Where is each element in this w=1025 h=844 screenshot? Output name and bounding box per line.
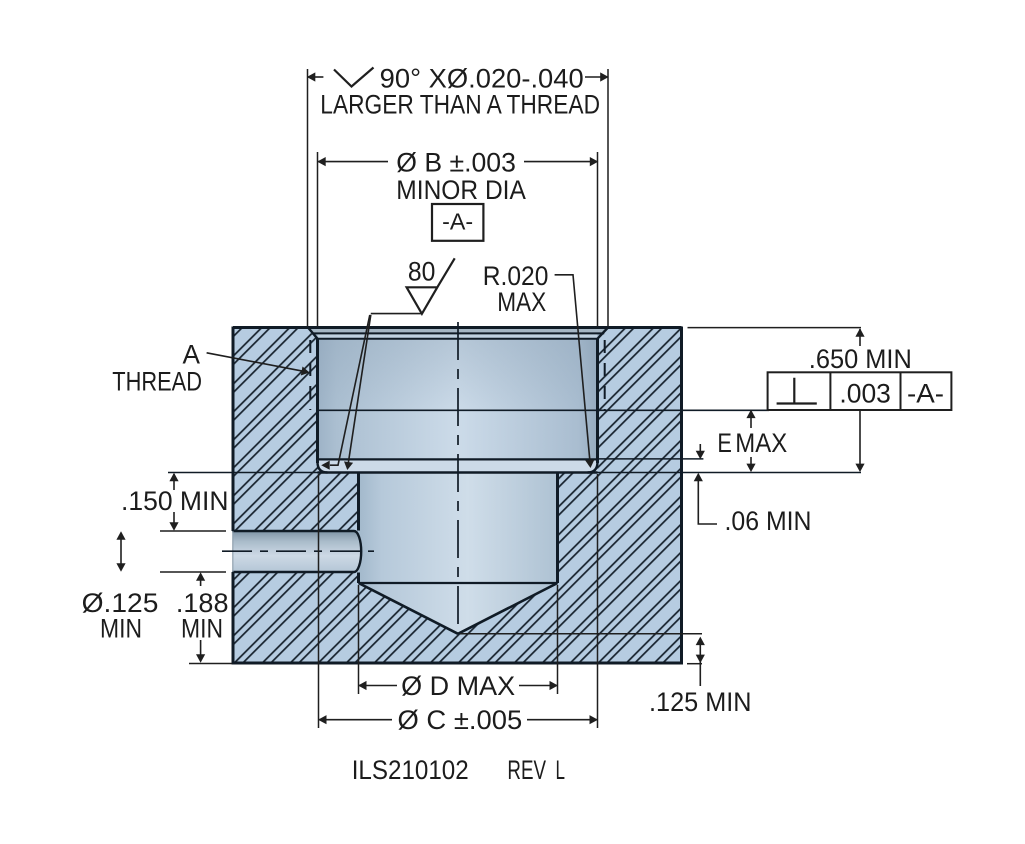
dim 188 shaft top [200, 574, 202, 586]
countersink chamfer left [308, 328, 318, 339]
ext dia C right [597, 474, 599, 728]
arrow A thread [301, 367, 310, 376]
arrow 125min down [696, 655, 705, 664]
arrow 125hole bottom [116, 563, 125, 572]
side hole top edge [232, 530, 354, 532]
svg-text:80: 80 [408, 257, 436, 287]
arrow 650 bottom [855, 464, 864, 473]
arrow diaC right [590, 715, 599, 724]
block cross-section fill [233, 328, 682, 664]
arrow seat down [696, 451, 705, 460]
ext countersink left [307, 69, 309, 327]
arrow 125hole top [116, 531, 125, 540]
dim E shaft top [750, 411, 752, 429]
seat fillet left [318, 462, 328, 473]
svg-text:-A-: -A- [907, 379, 944, 409]
block top edge [233, 326, 682, 329]
arrow 06 up [694, 473, 703, 482]
arrow diaD right [550, 681, 559, 690]
arrow diaB right [590, 157, 599, 166]
ext side hole top [160, 530, 226, 532]
seat fillet right [588, 462, 598, 473]
drill cone left slant [359, 583, 459, 634]
svg-text:A: A [183, 340, 201, 370]
dim E shaft bottom [750, 457, 752, 471]
leader 80 line A [348, 315, 371, 463]
svg-text:MIN: MIN [181, 614, 223, 644]
dim 150 shaft bottom [173, 512, 175, 529]
leader 80 horizontal [371, 313, 422, 315]
countersink chamfer right [598, 328, 609, 339]
arrow 188 bottom [196, 654, 205, 663]
svg-text:LARGER THAN A THREAD: LARGER THAN A THREAD [320, 90, 600, 120]
ext countersink right [607, 69, 609, 327]
svg-text:Ø D MAX: Ø D MAX [401, 671, 515, 701]
thread major dia dashed right [604, 340, 606, 410]
perpendicularity symbol [777, 378, 817, 404]
arrow 90deg left [307, 72, 316, 81]
ext dia C left [318, 474, 320, 728]
lower bore wall right [556, 473, 559, 584]
arrow E top [746, 410, 755, 419]
svg-text:.650 MIN: .650 MIN [809, 344, 912, 374]
dim diaB line right [524, 161, 598, 163]
svg-text:Ø B ±.003: Ø B ±.003 [396, 148, 516, 178]
countersink rim line [312, 332, 604, 334]
arrow 650 top [855, 328, 864, 337]
full thread depth extension right [598, 472, 862, 474]
svg-text:-A-: -A- [442, 209, 473, 235]
counterbore seat band [318, 461, 598, 472]
surface finish symbol [407, 258, 455, 314]
arrow 80A down [344, 461, 353, 470]
dim 650 shaft bottom [859, 411, 861, 471]
ext dia D left [358, 585, 360, 694]
ext minor dia right [597, 152, 599, 327]
dim 90deg line left [308, 76, 324, 78]
svg-text:.06 MIN: .06 MIN [725, 506, 812, 536]
countersink symbol [334, 68, 374, 87]
svg-text:.150 MIN: .150 MIN [121, 486, 229, 516]
svg-text:E: E [717, 428, 732, 458]
seat arrow shaft [699, 444, 701, 457]
dim 125hole shaft [120, 534, 122, 569]
dim diaD line right [519, 685, 558, 687]
full thread depth extension left [168, 472, 318, 474]
svg-text:Ø C ±.005: Ø C ±.005 [398, 705, 523, 735]
svg-text:ILS210102: ILS210102 [352, 755, 469, 785]
lower bore interior [359, 473, 558, 634]
thread bore rim line [318, 338, 598, 340]
countersink ring band [311, 329, 605, 333]
side hole end cap [354, 531, 361, 572]
cone base edge [359, 582, 558, 584]
arrow diaC left [318, 715, 327, 724]
arrowheads [116, 72, 864, 724]
seat edge extension right [597, 458, 704, 460]
seat edge line [319, 458, 597, 460]
arrow 150 top [169, 473, 178, 482]
dim diaC line right [527, 719, 598, 721]
leader A thread [207, 353, 303, 371]
arrow 80B left [321, 461, 330, 470]
dim 06 leader [698, 474, 717, 524]
svg-text:MAX: MAX [497, 287, 546, 317]
ext drill apex [460, 633, 702, 635]
arrow E bottom [746, 464, 755, 473]
svg-text:MIN: MIN [100, 614, 142, 644]
dimension lines and arrows [121, 77, 860, 720]
dim 650 shaft top [859, 329, 861, 346]
arrow diaD left [358, 681, 367, 690]
thread major dia dashed left [309, 340, 311, 410]
arrow 90deg right [600, 72, 609, 81]
thread top band [318, 333, 598, 338]
dim diaC line left [319, 719, 393, 721]
thread minor wall left [316, 339, 319, 463]
side hole interior [233, 531, 361, 572]
arrow 150 bottom [169, 522, 178, 531]
svg-text:.003: .003 [839, 379, 891, 409]
svg-text:THREAD: THREAD [112, 367, 202, 397]
arrow 188 top [196, 572, 205, 581]
ext block bottom right [687, 663, 702, 665]
side hole face break line [232, 531, 234, 572]
svg-text:REV: REV [507, 755, 546, 785]
full thread depth line [318, 471, 598, 474]
lower bore wall left [357, 473, 360, 584]
thread end line E [318, 409, 770, 411]
arrow diaB left [317, 157, 326, 166]
dim diaD line left [359, 685, 398, 687]
counterbore interior [308, 329, 608, 473]
arrow 125min up [696, 637, 705, 646]
svg-text:MAX: MAX [735, 428, 787, 458]
ext dia D right [557, 585, 559, 694]
dim 150 shaft top [173, 474, 175, 490]
leader 80 line B [330, 315, 370, 465]
dim diaB line left [318, 161, 388, 163]
side hole bottom edge [232, 571, 354, 573]
datum box A [432, 204, 483, 241]
ext block bottom left [189, 663, 232, 665]
block left edge [232, 327, 235, 664]
feature control frame [768, 372, 952, 410]
svg-text:L: L [556, 755, 566, 785]
dim 125min shaft [699, 640, 701, 686]
centerline side hole [222, 550, 374, 552]
ext side hole bottom [160, 571, 226, 573]
thread minor wall right [596, 339, 599, 463]
drill cone right slant [458, 583, 558, 634]
ext minor dia left [317, 152, 319, 327]
dim 90deg line right [585, 76, 608, 78]
leader R020 [555, 275, 590, 461]
block bottom edge [232, 662, 684, 665]
block hatching [233, 328, 682, 664]
dimension extension lines [160, 69, 861, 728]
centerline vertical [457, 322, 459, 634]
svg-text:MINOR DIA: MINOR DIA [396, 175, 526, 205]
svg-text:.125 MIN: .125 MIN [649, 687, 752, 717]
thread zone shading [0, 0, 1, 1]
part outlines [168, 327, 861, 664]
arrow R020 [585, 460, 594, 468]
block right edge [680, 327, 683, 664]
ext block top right [688, 327, 862, 329]
dim 188 shaft bottom [200, 640, 202, 661]
